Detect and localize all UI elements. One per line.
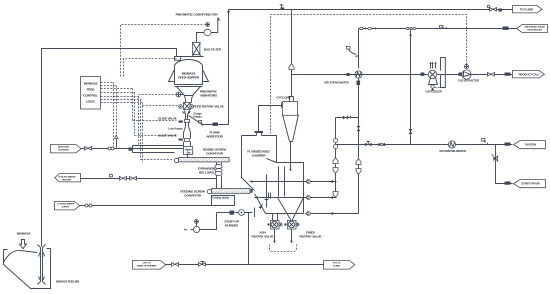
svg-text:CONTROL: CONTROL xyxy=(83,94,98,98)
wire cyclone dipleg xyxy=(289,142,291,172)
svg-text:NITROGEN: NITROGEN xyxy=(58,147,69,149)
svg-text:DRY-STEAM HEATER: DRY-STEAM HEATER xyxy=(324,81,349,85)
wire saturated steam line xyxy=(359,27,517,30)
instrument flag steam line xyxy=(440,26,447,29)
node PRODUCT GAS flag xyxy=(513,71,545,78)
wire oxygen branch to start-up air xyxy=(492,145,513,184)
biomass feed hopper xyxy=(169,57,209,100)
svg-text:CONVEYOR: CONVEYOR xyxy=(206,152,224,156)
valve flare line 2 xyxy=(487,5,502,11)
svg-text:GAS COOLER: GAS COOLER xyxy=(425,90,441,94)
svg-text:Hopper: Hopper xyxy=(193,115,201,119)
charge hopper / lock hopper column xyxy=(183,111,193,158)
wire cyclone overhead riser xyxy=(289,10,294,97)
svg-text:LPG TO: LPG TO xyxy=(143,263,151,265)
instrument flag heater xyxy=(347,47,359,59)
wire fines drop xyxy=(290,230,293,244)
cyclone xyxy=(282,97,299,142)
wire flare header xyxy=(229,9,513,11)
wire cooling water supply line xyxy=(80,204,212,207)
ash rotary valve xyxy=(267,214,282,230)
burner flame arrow xyxy=(259,204,264,209)
dry-steam heater xyxy=(347,29,363,214)
oxygen pre-heater xyxy=(448,141,455,148)
flange product flag xyxy=(505,73,511,76)
svg-text:VIBRATORS: VIBRATORS xyxy=(200,94,217,98)
svg-text:ROTARY VALVE: ROTARY VALVE xyxy=(300,235,322,239)
svg-text:BIOMASS: BIOMASS xyxy=(84,82,98,86)
wire LPG line xyxy=(166,262,325,267)
svg-text:SLIDE VALVE: SLIDE VALVE xyxy=(158,117,177,121)
wire oxygen lance 2 xyxy=(255,196,306,199)
valve steam corner xyxy=(360,27,377,30)
node COOLING WATER SUPPLY flag xyxy=(55,202,80,210)
biomass feed control logic box xyxy=(81,77,101,110)
svg-text:CONVEYOR: CONVEYOR xyxy=(184,194,202,198)
svg-text:TO FLARE: TO FLARE xyxy=(520,8,534,12)
wire oxygen-steam manifold xyxy=(336,142,513,147)
svg-text:BAG FILTER: BAG FILTER xyxy=(204,48,222,52)
wire control signal to hopper inlet xyxy=(124,59,177,77)
instrument flag lock hopper xyxy=(199,121,203,126)
wire pneumatic conveying line xyxy=(42,49,177,247)
svg-text:LPG TO: LPG TO xyxy=(333,263,341,265)
node SATURATED STEAM FROM BOILER flag xyxy=(517,25,548,33)
node TO FLARE flag xyxy=(513,6,543,13)
svg-text:PNEUMATIC CONVEYING FAN: PNEUMATIC CONVEYING FAN xyxy=(176,13,219,17)
svg-text:CYCLONE: CYCLONE xyxy=(276,96,290,100)
node LPG TO START-UP BURNER flag xyxy=(133,261,166,270)
svg-text:Lock Hopper: Lock Hopper xyxy=(168,127,183,131)
bag filter xyxy=(192,43,201,57)
svg-text:GASIFIER: GASIFIER xyxy=(252,154,267,158)
wire cooling water return line xyxy=(81,175,217,181)
svg-text:FLARE: FLARE xyxy=(333,265,341,268)
svg-text:FEED ROTARY VALVE: FEED ROTARY VALVE xyxy=(193,105,224,109)
svg-text:FEED: FEED xyxy=(87,88,96,92)
svg-text:FEED HOPPER: FEED HOPPER xyxy=(178,76,200,80)
svg-text:BELLOWS: BELLOWS xyxy=(199,171,214,175)
wire pressure control gasifier to extractor xyxy=(271,15,467,134)
wire ash drop xyxy=(273,230,276,244)
svg-text:BIOMASS: BIOMASS xyxy=(17,232,31,236)
gas extractor xyxy=(459,64,472,79)
wire steam branch to oxygen riser xyxy=(336,116,359,120)
svg-text:COOLING WATER: COOLING WATER xyxy=(57,203,75,206)
node OXYGEN flag xyxy=(505,141,546,149)
node START-UP AIR flag xyxy=(505,180,546,188)
wire LPG riser to burner xyxy=(248,213,250,265)
dosing screw conveyor xyxy=(174,158,229,163)
wire product gas line xyxy=(292,74,513,76)
fluidized-bed gasifier xyxy=(242,132,304,214)
svg-text:FLUSHING: FLUSHING xyxy=(58,150,69,152)
svg-text:RETURN: RETURN xyxy=(62,180,71,182)
svg-text:Bin: Bin xyxy=(187,151,191,155)
nozzle 1 xyxy=(306,180,337,184)
nozzle 3 xyxy=(306,212,359,216)
svg-text:ARRESTOR: ARRESTOR xyxy=(206,135,223,139)
start-up burner air blower xyxy=(191,213,217,233)
slide valve SV2 xyxy=(179,139,183,141)
wire gasifier outlet to cyclone xyxy=(259,106,282,132)
flame arrestor xyxy=(189,10,230,126)
svg-text:OXYGEN PRE-HEATER: OXYGEN PRE-HEATER xyxy=(439,149,466,153)
svg-text:OXYGEN: OXYGEN xyxy=(525,143,537,147)
svg-text:GAS EXTRACTOR: GAS EXTRACTOR xyxy=(458,79,479,83)
ash bucket xyxy=(270,245,297,252)
svg-text:SATURATED STEAM: SATURATED STEAM xyxy=(524,26,544,29)
pneumatic conveying fan xyxy=(197,18,220,43)
node BIOMASS inlet arrow xyxy=(20,240,27,249)
node NITROGEN FLUSHING flag xyxy=(51,145,82,153)
wire control signal to fan solenoid xyxy=(121,25,205,77)
feeding screw conveyor with cooling jacket xyxy=(207,189,252,206)
start-up burner xyxy=(217,208,255,218)
valve flare line 1 xyxy=(280,5,284,9)
feed rotary valve xyxy=(179,100,194,110)
svg-text:SUPPLY: SUPPLY xyxy=(61,207,70,209)
instrument flag oxygen line xyxy=(482,139,488,145)
wire oxygen riser A xyxy=(333,118,338,198)
svg-text:PRODUCT GAS: PRODUCT GAS xyxy=(519,73,539,77)
gas cooler xyxy=(428,62,437,91)
wire nitrogen line xyxy=(81,147,184,151)
wire label leader xyxy=(267,159,277,163)
wire steam riser B xyxy=(406,27,416,144)
check valves steam riser xyxy=(356,159,361,165)
fines hopper funnel xyxy=(278,198,304,220)
nozzle 2 xyxy=(306,196,337,200)
valve product line xyxy=(488,73,495,77)
svg-text:START-UP AIR: START-UP AIR xyxy=(521,182,539,186)
cooler recycle loop xyxy=(435,58,446,88)
fines rotary valve xyxy=(284,220,299,230)
svg-text:FROM BOILER: FROM BOILER xyxy=(527,30,542,32)
wire oxygen lance 1 xyxy=(250,180,306,183)
biomass feed bin xyxy=(4,249,51,289)
internal gasifier lances xyxy=(265,167,285,208)
valve steam riser xyxy=(357,126,361,131)
svg-text:ROTARY VALVE: ROTARY VALVE xyxy=(252,235,274,239)
svg-text:BURNER: BURNER xyxy=(225,224,238,228)
node LPG TO FLARE flag xyxy=(324,261,355,270)
pneumatic vibrator xyxy=(176,92,184,97)
slide valve SV1 xyxy=(179,121,183,123)
svg-text:START-UP BURNER: START-UP BURNER xyxy=(137,265,157,268)
svg-text:Air: Air xyxy=(184,228,187,232)
wire control signals from logic box xyxy=(101,83,178,163)
biomass feed bin suction pipe xyxy=(38,245,46,285)
expansion bellows xyxy=(215,163,222,189)
strainer nitrogen branch xyxy=(115,135,118,148)
svg-text:LOGIC: LOGIC xyxy=(86,100,96,104)
flange product line xyxy=(421,73,425,76)
node COOLING WATER RETURN flag xyxy=(55,174,81,182)
svg-text:Cooling Jacket: Cooling Jacket xyxy=(212,196,229,200)
wire nitrogen branches to lock hopper xyxy=(133,146,184,153)
svg-text:COOLING WATER: COOLING WATER xyxy=(58,176,76,179)
svg-text:BIOMASS FEED BIN: BIOMASS FEED BIN xyxy=(56,280,79,284)
